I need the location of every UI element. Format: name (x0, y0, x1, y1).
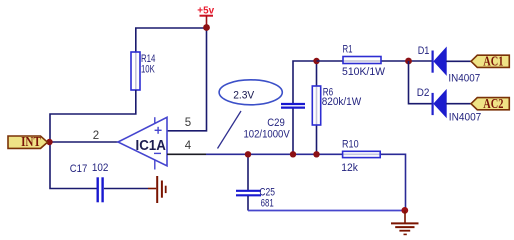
svg-text:R1: R1 (343, 44, 353, 56)
wire: R1 row (317, 60, 432, 62)
junction dot: +5v node (203, 24, 210, 31)
junction dot: D1/D2 node (405, 58, 412, 65)
power +5v symbol (197, 5, 214, 28)
svg-text:AC1: AC1 (483, 55, 503, 70)
svg-text:681: 681 (261, 197, 274, 209)
ground symbol (sideways, at C17) (148, 176, 166, 203)
junction dot: C25 branch (245, 151, 251, 157)
svg-text:IC1A: IC1A (136, 138, 167, 154)
connector INT (8, 134, 48, 149)
capacitor C29 (281, 104, 305, 108)
wire: bottom ground run (248, 210, 405, 212)
wire: op-amp output (pin 4) main net (167, 153, 206, 155)
svg-text:C17: C17 (70, 163, 88, 175)
svg-text:510K/1W: 510K/1W (342, 66, 386, 78)
diode D2 (433, 90, 447, 117)
wire: node down to D2 (409, 61, 432, 104)
ground symbol (bottom right) (391, 211, 419, 235)
capacitor C17 (98, 177, 103, 202)
svg-text:AC2: AC2 (483, 97, 503, 112)
capacitor C25 (236, 191, 261, 196)
wire: D2 to AC2 (446, 103, 471, 105)
wire: C25 bottom to ground wire (247, 196, 249, 211)
svg-text:IN4007: IN4007 (448, 73, 480, 85)
svg-text:5: 5 (185, 117, 191, 129)
wire: branch down to C25 (247, 154, 249, 190)
junction dot: R6 bottom node (313, 151, 319, 157)
junction dot: R6 top node (313, 58, 319, 64)
svg-text:2: 2 (93, 130, 99, 142)
leader line from ellipse to output wire (218, 111, 242, 149)
resistor R6 (312, 86, 320, 125)
junction dot: ground node (401, 207, 408, 214)
svg-text:4: 4 (185, 140, 192, 152)
callout ellipse 2.3V (219, 80, 282, 105)
wire: +5v rail down to op-amp pin 5 (167, 28, 207, 131)
resistor R10 (343, 151, 381, 157)
resistor R14 (131, 52, 140, 90)
wire: R6 branch vertical (316, 61, 318, 154)
connector AC1 (471, 55, 509, 70)
wire: C17 to ground (104, 188, 148, 190)
wire: INT to op-amp input (pin 2) (49, 141, 118, 143)
svg-text:820k/1W: 820k/1W (322, 96, 362, 108)
svg-text:D1: D1 (418, 45, 430, 57)
svg-text:D2: D2 (417, 87, 430, 99)
wire: +5v rail to R14 top (136, 28, 207, 90)
wire: branch up through C29 to R1 row (292, 108, 294, 155)
svg-text:102/1000V: 102/1000V (244, 128, 291, 140)
connector AC2 (471, 97, 509, 112)
svg-text:2.3V: 2.3V (233, 89, 255, 101)
wire: D1 to AC1 (446, 60, 471, 62)
junction dot: C29 branch (290, 151, 296, 157)
junction dot: INT node (46, 139, 52, 145)
svg-text:IN4007: IN4007 (449, 112, 482, 124)
svg-text:12k: 12k (341, 162, 358, 174)
wire: R14 bottom feedback to inverting input (50, 90, 136, 142)
svg-text:C29: C29 (267, 117, 285, 129)
svg-text:10K: 10K (141, 63, 155, 75)
op-amp IC1A (118, 117, 167, 169)
svg-text:R10: R10 (342, 138, 359, 150)
resistor R1 (343, 57, 381, 64)
wire: input node down to C17 (50, 142, 97, 189)
svg-text:102: 102 (92, 162, 109, 174)
svg-text:INT: INT (21, 134, 41, 149)
diode D1 (433, 48, 447, 75)
